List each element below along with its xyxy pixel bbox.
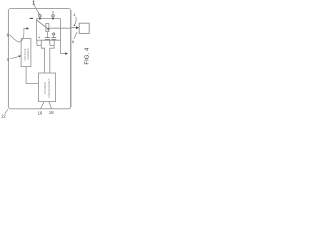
svg-text:9: 9 <box>52 11 54 15</box>
svg-text:SOURCE: SOURCE <box>26 48 30 60</box>
leader from label 1 to terminal T1 <box>34 5 40 15</box>
svg-text:4: 4 <box>7 57 10 62</box>
arrowhead of label-34 leader <box>74 24 76 26</box>
svg-text:FREQUENCY: FREQUENCY <box>47 78 51 97</box>
terminal circle above capacitor C2 <box>53 33 55 35</box>
svg-text:4: 4 <box>73 13 75 17</box>
variable element Q1 arrow <box>37 20 49 29</box>
variable element Q1 body <box>46 24 49 32</box>
output stub wire to external load <box>71 27 76 29</box>
leader from external load to label 36 <box>74 32 77 39</box>
leader from label 12 to enclosure corner <box>5 109 8 113</box>
capacitor C1 top lead <box>46 32 48 38</box>
enclosure box (module outline) <box>8 8 70 108</box>
lower wire <box>36 39 60 41</box>
block U1 (left box) <box>21 39 31 67</box>
block U2 text <box>43 78 51 97</box>
junction dot at T2 <box>52 18 54 20</box>
leader from label 34 <box>75 17 76 25</box>
svg-text:6: 6 <box>72 40 74 44</box>
arrowhead of label-4 leader <box>19 55 22 57</box>
right branch wire <box>60 19 62 54</box>
terminal T1 circle <box>39 15 42 18</box>
wire from E2 to divider <box>50 46 54 73</box>
cup element E2 below lower wire <box>50 40 54 45</box>
capacitor C1 plates <box>45 37 50 39</box>
wire from U1 to divider block <box>26 67 38 84</box>
leader from label 4 to block U1 <box>10 56 19 58</box>
capacitor C2 top lead <box>53 35 55 37</box>
tiny mark above lower wire <box>39 37 40 38</box>
svg-text:1: 1 <box>32 0 35 6</box>
svg-text:18: 18 <box>49 110 54 115</box>
capacitor C2 plates <box>51 37 56 39</box>
wire from E1 to divider <box>41 46 44 73</box>
left branch wire <box>35 19 37 41</box>
block U1 text <box>23 48 30 61</box>
external load box <box>79 23 89 33</box>
enclosure right edge emphasis <box>70 10 72 107</box>
block U2 (frequency divider) <box>39 73 56 102</box>
svg-text:12: 12 <box>1 114 6 119</box>
arrowhead of label-6 leader <box>26 27 29 29</box>
arrowhead of label-1 leader <box>38 13 40 15</box>
svg-text:6: 6 <box>7 32 10 37</box>
cup element E1 below lower wire <box>37 40 41 45</box>
leader to label 16 <box>41 102 45 109</box>
leader to label 18 <box>49 102 52 109</box>
arrow wire pointing at enclosure edge <box>61 53 67 55</box>
leader from label 6 with arrow <box>10 29 27 43</box>
terminal T2 circle <box>52 15 55 18</box>
arrowhead at enclosure edge <box>65 52 68 55</box>
svg-text:16: 16 <box>38 110 43 115</box>
supply rail wire <box>36 18 60 20</box>
output wire to right <box>49 27 71 29</box>
junction dot at T1 <box>39 18 41 20</box>
arrowhead into external load <box>76 26 79 29</box>
svg-text:FIG. 4: FIG. 4 <box>85 47 91 65</box>
arrowhead of Q1 arrow <box>47 28 50 30</box>
dash mark left of rail <box>30 17 34 19</box>
